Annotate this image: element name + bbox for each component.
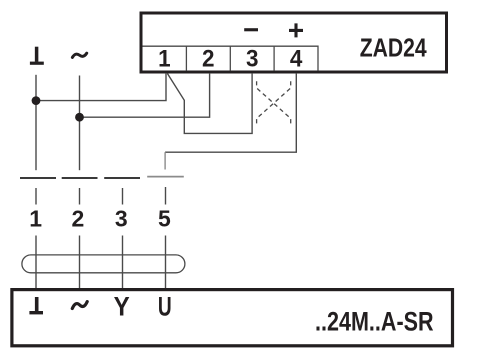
svg-text:2: 2 bbox=[72, 206, 85, 232]
svg-text:2: 2 bbox=[202, 46, 215, 73]
wire 2 middle stub bbox=[79, 188, 81, 205]
svg-text:1: 1 bbox=[29, 206, 42, 232]
wire 2 lower segment bbox=[79, 236, 81, 291]
wire ZAD24 terminal 4 to wire 5 bbox=[165, 73, 296, 152]
svg-text:U: U bbox=[158, 292, 172, 322]
wire 3 lower segment bbox=[122, 236, 124, 291]
svg-text:ZAD24: ZAD24 bbox=[360, 35, 428, 63]
positioner box U1 ZAD24 bbox=[141, 13, 447, 72]
junction dot A bbox=[32, 96, 41, 105]
svg-text:1: 1 bbox=[158, 46, 171, 73]
junction dot B bbox=[75, 113, 84, 122]
wire 1 lower segment bbox=[35, 236, 37, 291]
wire from junction B to ZAD24 terminal 2 bbox=[80, 73, 210, 117]
system potential symbol (top left) bbox=[30, 47, 44, 65]
wire 1 middle stub bbox=[35, 188, 37, 205]
polarity label plus (terminal 4) bbox=[289, 23, 303, 37]
svg-text:..24M..A-SR: ..24M..A-SR bbox=[315, 307, 434, 337]
actuator terminal symbol: AC supply ~ bbox=[72, 302, 87, 309]
wire 1 upper segment (from system potential) bbox=[35, 75, 37, 170]
wire 5 upper stub (gray) bbox=[164, 152, 166, 169]
wire 5 middle stub bbox=[165, 187, 167, 205]
svg-text:3: 3 bbox=[115, 206, 128, 232]
AC supply symbol ~ (top left) bbox=[72, 53, 86, 57]
polarity label minus (terminal 3) bbox=[244, 28, 258, 31]
svg-text:3: 3 bbox=[246, 46, 259, 73]
wire break mark on wire 5 (gray) bbox=[147, 176, 184, 178]
wire 5 lower segment bbox=[165, 236, 167, 291]
cable sleeve (rounded) bbox=[22, 255, 185, 273]
wire break mark on wire 1 bbox=[20, 177, 56, 179]
actuator box ..24M..A-SR bbox=[12, 290, 453, 346]
wire break mark on wire 3 bbox=[104, 177, 140, 179]
svg-text:4: 4 bbox=[290, 46, 303, 73]
svg-text:Y: Y bbox=[114, 292, 130, 322]
wire 3 middle stub bbox=[122, 188, 124, 205]
svg-text:5: 5 bbox=[158, 206, 171, 232]
wire break mark on wire 2 bbox=[62, 177, 98, 179]
wire from junction A to ZAD24 terminal 1 bbox=[36, 73, 166, 101]
optional polarity reversal cross (dashed) bbox=[257, 81, 291, 125]
wire 2 upper segment (from AC supply) bbox=[79, 76, 81, 171]
wire ZAD24 terminal 1 to terminal 3 bbox=[167, 73, 252, 133]
actuator terminal symbol: system potential bbox=[29, 297, 43, 314]
terminal strip of ZAD24 bbox=[143, 46, 319, 71]
